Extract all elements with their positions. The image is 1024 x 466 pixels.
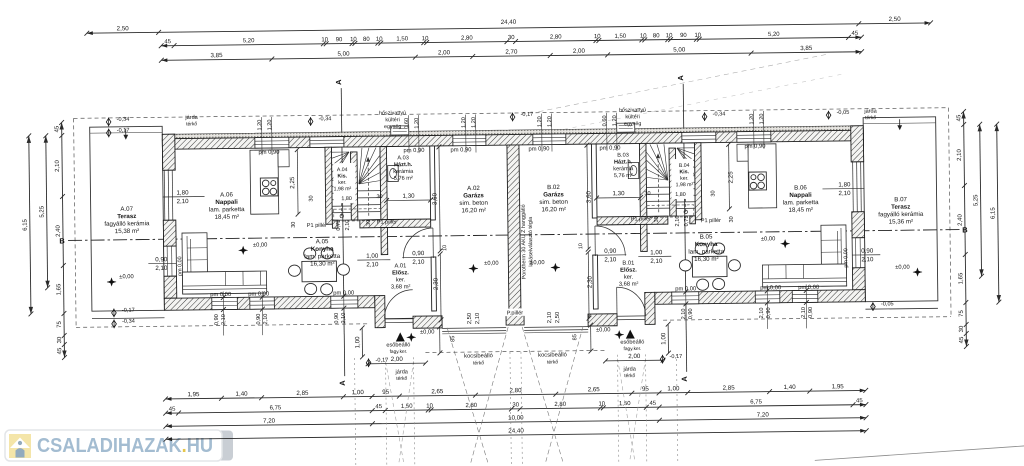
- yard dashed line center: [425, 350, 605, 352]
- svg-text:30: 30: [291, 222, 297, 228]
- svg-text:B.05: B.05: [700, 234, 713, 241]
- svg-text:térkő: térkő: [396, 376, 407, 382]
- elevation star ±0,00: [895, 265, 922, 277]
- svg-text:0,75: 0,75: [336, 220, 342, 231]
- svg-text:A.07: A.07: [120, 206, 133, 213]
- svg-text:2,25: 2,25: [727, 171, 734, 184]
- window in front wall: [250, 297, 275, 309]
- svg-text:esőbeálló: esőbeálló: [386, 342, 410, 348]
- svg-text:járda: járda: [622, 367, 636, 373]
- svg-text:5,76 m²: 5,76 m²: [614, 173, 633, 179]
- svg-text:30: 30: [366, 220, 372, 226]
- svg-text:1,00: 1,00: [354, 336, 361, 349]
- svg-text:P1 pillér: P1 pillér: [307, 223, 327, 229]
- svg-text:95: 95: [382, 389, 390, 396]
- svg-text:2,65: 2,65: [588, 386, 601, 393]
- svg-text:75: 75: [959, 310, 965, 317]
- svg-text:térkő: térkő: [186, 121, 197, 127]
- label hoszivattyu kulteri egyseg: [379, 110, 406, 130]
- dimension 2,30 garage A: [432, 245, 449, 323]
- wall: L side wall lower block: [164, 276, 177, 298]
- svg-text:Kis.: Kis.: [679, 169, 689, 175]
- dimension porch 2,00 R: [603, 353, 665, 364]
- svg-text:fagyálló kerámia: fagyálló kerámia: [104, 220, 150, 228]
- svg-text:75: 75: [57, 321, 63, 328]
- svg-text:1,00: 1,00: [660, 332, 667, 345]
- watermark house icon: [9, 434, 31, 458]
- svg-text:2,10: 2,10: [263, 314, 269, 325]
- svg-text:Elősz.: Elősz.: [620, 267, 637, 273]
- svg-text:2,25: 2,25: [289, 176, 296, 189]
- svg-text:-0,17: -0,17: [669, 354, 682, 360]
- dimension 0,90/2,10 left hall door: [402, 250, 436, 266]
- svg-text:10: 10: [321, 37, 328, 43]
- svg-text:30: 30: [654, 216, 660, 222]
- svg-text:2,10: 2,10: [650, 258, 663, 265]
- svg-text:térkő: térkő: [624, 373, 635, 379]
- svg-text:sim. beton: sim. beton: [459, 200, 488, 207]
- svg-text:Konyha: Konyha: [311, 246, 334, 253]
- wall: L stair west wall: [325, 147, 332, 224]
- svg-text:1,20: 1,20: [749, 114, 755, 125]
- svg-text:B.01: B.01: [622, 261, 634, 267]
- svg-text:45: 45: [57, 347, 63, 354]
- window in top wall: [682, 132, 716, 143]
- window in top wall: [453, 135, 486, 146]
- svg-text:5,20: 5,20: [768, 32, 780, 38]
- svg-text:Porotherm 30 AKU Z hanggátló: Porotherm 30 AKU Z hanggátló: [521, 204, 528, 279]
- svg-text:30: 30: [644, 191, 650, 197]
- svg-text:-0,34: -0,34: [319, 116, 332, 122]
- svg-text:0,90: 0,90: [412, 250, 425, 257]
- svg-text:10: 10: [376, 37, 383, 43]
- svg-text:fagy.ker.: fagy.ker.: [390, 349, 408, 355]
- dimension 1,80/2,10 right terrace door: [822, 181, 864, 197]
- dining chairs R: [679, 243, 741, 291]
- room label B.03 Házt.h.: [613, 153, 634, 180]
- svg-text:2,10: 2,10: [475, 313, 481, 324]
- dimension porch side 1,00 L: [354, 325, 365, 359]
- room label A.03 Házt.h.: [393, 155, 414, 182]
- dimension right column inner: [956, 109, 969, 349]
- svg-text:sim. beton: sim. beton: [539, 199, 568, 206]
- svg-text:2,10: 2,10: [547, 312, 553, 323]
- entrance triangle marker L: [396, 332, 405, 341]
- svg-text:5,20: 5,20: [243, 38, 255, 44]
- level diamond marker: [702, 111, 725, 121]
- svg-text:1,30: 1,30: [612, 190, 625, 197]
- svg-text:lam. parketta: lam. parketta: [304, 253, 340, 260]
- window in side wall: [852, 238, 865, 268]
- svg-text:pm 0,00: pm 0,00: [248, 291, 269, 297]
- svg-text:fagyálló kerámia: fagyálló kerámia: [878, 211, 924, 219]
- svg-text:B.03: B.03: [617, 153, 629, 159]
- svg-text:0,90: 0,90: [214, 314, 220, 325]
- svg-text:1,40: 1,40: [784, 384, 797, 391]
- dimension 1,00/2,10 left kitchen door: [357, 253, 390, 269]
- room label B.04 Kis.: [675, 163, 693, 188]
- elevation star ±0,00: [238, 243, 267, 255]
- svg-text:1,80: 1,80: [176, 189, 189, 196]
- wall: R garage west wall upper: [591, 144, 597, 218]
- svg-text:térkő: térkő: [865, 115, 876, 121]
- svg-text:kerámia: kerámia: [613, 166, 634, 172]
- terrace drain arrow: [123, 129, 128, 140]
- svg-text:1,95: 1,95: [832, 383, 845, 390]
- level diamond marker: [106, 117, 129, 127]
- svg-text:térkő: térkő: [547, 359, 558, 365]
- door arc right hall-garage door: [595, 226, 625, 256]
- dimension 2,25 left kitchen: [289, 147, 301, 216]
- svg-text:2,10: 2,10: [221, 314, 227, 325]
- svg-text:30: 30: [512, 402, 519, 408]
- svg-text:30: 30: [959, 325, 965, 332]
- svg-text:30: 30: [376, 194, 382, 200]
- wall: R front door side stub: [588, 314, 617, 326]
- svg-text:0,90: 0,90: [256, 314, 262, 325]
- dimension 2,30 garage B: [578, 243, 594, 321]
- svg-text:15,36 m²: 15,36 m²: [889, 218, 914, 225]
- dimension 1,80/2,10 left terrace door: [162, 189, 204, 205]
- svg-text:30: 30: [57, 336, 63, 343]
- wall: R corridor wall segment: [690, 216, 696, 224]
- svg-text:pm 0,00: pm 0,00: [760, 285, 781, 291]
- svg-text:B.06: B.06: [794, 184, 807, 191]
- svg-text:járda: járda: [863, 109, 877, 115]
- svg-text:±0,00: ±0,00: [895, 265, 910, 271]
- wall: central front pillar P.pillér: [506, 310, 524, 325]
- svg-text:2,10: 2,10: [55, 160, 61, 172]
- svg-text:Házt.h.: Házt.h.: [394, 162, 413, 168]
- svg-text:5,25: 5,25: [39, 205, 45, 217]
- svg-text:2,70: 2,70: [505, 49, 518, 56]
- faint scan diagonal artifacts: [538, 52, 1024, 464]
- svg-text:B.02: B.02: [547, 184, 560, 191]
- dimension 0,90/2,10 left side window: [148, 256, 176, 272]
- svg-text:30: 30: [710, 190, 716, 196]
- wall: top exterior wall band: [162, 130, 863, 149]
- svg-text:B: B: [59, 236, 65, 245]
- svg-text:1,80: 1,80: [675, 192, 686, 198]
- label hoszivattyu kulteri egyseg: [619, 107, 646, 127]
- wall: L entrance bay side wall: [375, 296, 385, 328]
- svg-text:2,50: 2,50: [555, 312, 561, 323]
- svg-text:0,90: 0,90: [688, 308, 694, 319]
- svg-text:±0,00: ±0,00: [420, 329, 435, 335]
- svg-text:pm 0,00: pm 0,00: [177, 256, 183, 276]
- svg-text:Házt.h.: Házt.h.: [614, 159, 633, 165]
- room label B.05 Konyha: [688, 233, 725, 263]
- front window axis dimension lines: [221, 284, 809, 335]
- room label A.07 Terasz: [104, 205, 150, 235]
- svg-text:10: 10: [598, 401, 605, 407]
- svg-text:10: 10: [426, 403, 433, 409]
- terrace A.07 outline: [90, 126, 165, 318]
- svg-text:0,60: 0,60: [602, 115, 608, 126]
- dimension bottom row A segments: [163, 383, 868, 401]
- svg-text:16,30 m²: 16,30 m²: [310, 260, 335, 267]
- elevation star ±0,00: [596, 327, 624, 339]
- svg-text:3,68 m²: 3,68 m²: [391, 284, 411, 290]
- svg-text:7,20: 7,20: [263, 418, 276, 425]
- svg-text:kocsibeálló: kocsibeálló: [464, 353, 493, 359]
- svg-text:3,85: 3,85: [210, 52, 223, 59]
- driveway kocsibeallo lines L: [447, 327, 510, 463]
- svg-text:2,50: 2,50: [467, 313, 473, 324]
- svg-text:±0,00: ±0,00: [761, 236, 776, 242]
- elevation star ±0,00: [407, 329, 435, 341]
- driveway kocsibeallo lines R: [522, 326, 585, 462]
- dining table L: [302, 261, 337, 282]
- stove L: [260, 178, 278, 196]
- svg-text:Elősz.: Elősz.: [392, 270, 409, 276]
- svg-text:A: A: [680, 376, 689, 382]
- wall: L kitchen-hall wall: [381, 228, 388, 255]
- svg-text:2,10: 2,10: [675, 216, 681, 227]
- dimension 2,25 right kitchen: [726, 142, 735, 211]
- B.04 label backing: [671, 159, 693, 199]
- kitchen counter L: [250, 150, 290, 214]
- svg-text:16,20 m²: 16,20 m²: [461, 207, 486, 214]
- corner sofa R: [762, 225, 847, 287]
- jarda dotted lines L: [386, 357, 415, 466]
- level diamond marker: [366, 358, 388, 368]
- garage door threshold: [524, 327, 588, 333]
- svg-text:5,00: 5,00: [673, 46, 686, 53]
- svg-text:85: 85: [572, 334, 578, 340]
- svg-text:1,20: 1,20: [414, 118, 420, 129]
- svg-text:10: 10: [694, 33, 701, 39]
- jarda dotted lines R: [617, 354, 646, 464]
- svg-text:7,20: 7,20: [757, 411, 770, 418]
- dimension top row rooms: [159, 44, 864, 62]
- window in front wall: [212, 297, 238, 309]
- svg-text:A.01: A.01: [394, 263, 406, 269]
- svg-text:1,80: 1,80: [341, 196, 352, 202]
- svg-text:hőszivattyú: hőszivattyú: [379, 110, 406, 116]
- svg-text:ker.: ker.: [396, 277, 406, 283]
- svg-text:85: 85: [450, 336, 456, 342]
- window in top wall: [533, 134, 566, 145]
- wall: L side wall upper corner block: [162, 134, 175, 170]
- wall: L stair spine wall: [350, 152, 357, 220]
- section line A-A left: [334, 79, 347, 386]
- svg-text:esőbeálló: esőbeálló: [620, 339, 644, 345]
- wall: R corridor wall long segment: [597, 216, 668, 225]
- dining chairs L: [288, 247, 350, 295]
- level diamond marker: [871, 301, 894, 311]
- svg-text:P1 pillér: P1 pillér: [631, 216, 651, 222]
- wall: R living front wall: [655, 290, 866, 305]
- dimension bottom row C 7,20+10,00+7,20: [163, 410, 868, 428]
- svg-text:6,15: 6,15: [23, 218, 29, 230]
- svg-text:A.05: A.05: [316, 238, 329, 245]
- stove R: [749, 172, 767, 190]
- svg-text:2,10: 2,10: [957, 149, 963, 161]
- svg-text:2,10: 2,10: [861, 256, 874, 263]
- svg-text:ker.: ker.: [338, 180, 346, 186]
- svg-text:-0,34: -0,34: [122, 319, 135, 325]
- terrace B.07 outline: [863, 117, 938, 309]
- svg-text:pm 0,00: pm 0,00: [675, 286, 696, 292]
- svg-text:2,40: 2,40: [958, 214, 964, 226]
- svg-text:2,10: 2,10: [177, 198, 190, 205]
- dimension left column inner: [54, 120, 67, 360]
- front door threshold: [617, 316, 645, 320]
- svg-text:fagy.ker.: fagy.ker.: [624, 346, 642, 352]
- wall: L garage west wall upper: [430, 146, 436, 220]
- wall: R stair spine wall: [669, 148, 676, 216]
- wall: R stair west wall: [694, 143, 701, 220]
- wall: L front door side stub: [413, 316, 442, 328]
- svg-text:18,45 m²: 18,45 m²: [215, 214, 240, 221]
- svg-text:45: 45: [649, 401, 656, 407]
- dimension 85 right porch: [572, 323, 593, 354]
- svg-text:1,00: 1,00: [650, 249, 663, 256]
- stairs L: [331, 147, 380, 222]
- svg-text:B: B: [962, 225, 968, 234]
- svg-text:0,90: 0,90: [155, 256, 168, 263]
- svg-text:lakáselválasztó tégla: lakáselválasztó tégla: [528, 217, 535, 267]
- svg-text:Garázs: Garázs: [543, 191, 564, 198]
- window in top wall: [310, 137, 344, 148]
- svg-text:15,38 m²: 15,38 m²: [115, 228, 140, 235]
- svg-text:-0,05: -0,05: [837, 110, 850, 116]
- svg-text:3,60: 3,60: [585, 190, 592, 203]
- svg-text:3,60: 3,60: [431, 192, 438, 205]
- kitchen counter R: [737, 144, 777, 208]
- garage door threshold: [442, 328, 506, 334]
- svg-text:B.07: B.07: [894, 196, 907, 203]
- svg-text:lam. parketta: lam. parketta: [783, 199, 819, 206]
- svg-text:2,40: 2,40: [56, 225, 62, 237]
- door arc front door right: [617, 287, 646, 316]
- svg-text:2,50: 2,50: [889, 16, 902, 23]
- svg-text:5,76 m²: 5,76 m²: [394, 176, 413, 182]
- level diamond marker: [112, 308, 135, 318]
- wall: R stair east wall: [639, 143, 646, 220]
- svg-text:2,50: 2,50: [117, 25, 130, 32]
- dimension 3,60 garage B: [585, 143, 594, 252]
- corner sofa L: [182, 232, 267, 294]
- svg-text:1,80: 1,80: [838, 181, 851, 188]
- svg-text:2,10: 2,10: [604, 256, 617, 263]
- svg-text:1,50: 1,50: [614, 34, 626, 40]
- svg-text:járda: járda: [394, 369, 408, 375]
- svg-text:Nappali: Nappali: [215, 199, 238, 206]
- svg-text:45: 45: [852, 31, 859, 37]
- heat pump unit R: [617, 123, 635, 132]
- svg-text:térkő: térkő: [473, 360, 484, 366]
- svg-text:pm 0,00: pm 0,00: [210, 292, 231, 298]
- svg-text:90: 90: [680, 33, 687, 39]
- room label B.07 Terasz: [878, 196, 924, 226]
- svg-text:6,15: 6,15: [991, 207, 997, 219]
- dimension right column 5,25: [972, 122, 984, 279]
- svg-text:1,65: 1,65: [56, 283, 62, 295]
- svg-text:-0,17: -0,17: [521, 112, 534, 118]
- heat pump unit L: [391, 126, 409, 135]
- svg-text:1,00: 1,00: [667, 385, 680, 392]
- room label B.06 Nappali: [783, 184, 820, 214]
- terrace sliding door (glass) in side wall: [851, 162, 864, 212]
- svg-text:ker.: ker.: [624, 275, 634, 281]
- terrace sliding door (glass) in side wall: [163, 170, 176, 220]
- svg-text:1,50: 1,50: [396, 36, 408, 42]
- svg-text:CSALADIHAZAK.HU: CSALADIHAZAK.HU: [37, 434, 213, 457]
- svg-text:A: A: [334, 79, 343, 85]
- window in front wall: [755, 291, 780, 303]
- room label B.01 Elősz.: [619, 260, 639, 287]
- svg-text:2,80: 2,80: [461, 36, 473, 42]
- svg-text:±0,00: ±0,00: [484, 261, 499, 267]
- svg-text:-0,34: -0,34: [713, 111, 726, 117]
- svg-text:-0,34: -0,34: [117, 117, 130, 123]
- svg-text:0,90: 0,90: [766, 307, 772, 318]
- svg-text:1,20: 1,20: [547, 116, 553, 127]
- svg-text:16,20 m²: 16,20 m²: [541, 206, 566, 213]
- pillar projection dashed verticals: [510, 352, 522, 466]
- stairs R: [646, 143, 695, 218]
- dimension 1,30 right: [594, 190, 651, 201]
- svg-text:2,00: 2,00: [391, 356, 404, 363]
- wall: L side wall mid block: [163, 220, 176, 246]
- svg-text:P.pillér: P.pillér: [507, 310, 524, 316]
- elevation star ±0,00: [530, 260, 560, 272]
- wall: R kitchen-hall wall: [640, 224, 647, 251]
- svg-text:2,00: 2,00: [573, 48, 586, 55]
- wall: R entrance bay side wall: [645, 292, 655, 324]
- svg-text:pm 0,90: pm 0,90: [258, 150, 279, 156]
- window in front wall: [672, 292, 699, 304]
- svg-text:hőszivattyú: hőszivattyú: [619, 107, 646, 113]
- svg-text:2,10: 2,10: [155, 265, 168, 272]
- label Porotherm party wall rotated: [521, 204, 535, 279]
- level diamond marker: [826, 110, 849, 120]
- svg-text:6,75: 6,75: [750, 399, 762, 405]
- svg-text:2,30: 2,30: [587, 275, 594, 288]
- label P.pillér with backing: [499, 308, 531, 316]
- svg-text:lam. parketta: lam. parketta: [688, 248, 724, 255]
- svg-text:95: 95: [642, 386, 650, 393]
- svg-text:pm 0,90: pm 0,90: [403, 148, 424, 154]
- svg-text:2,10: 2,10: [345, 220, 351, 231]
- svg-text:pm 0,00: pm 0,00: [333, 290, 354, 296]
- dimension 3,60 garage A: [431, 144, 443, 253]
- dimension 1,00/2,10 right kitchen door: [638, 249, 671, 265]
- room label B.02 Garázs: [539, 184, 568, 214]
- wall: top insulation strip: [162, 126, 863, 139]
- svg-text:lam. parketta: lam. parketta: [209, 206, 245, 213]
- svg-text:30: 30: [508, 35, 515, 41]
- svg-text:Nappali: Nappali: [789, 192, 812, 199]
- svg-text:1,00: 1,00: [352, 389, 365, 396]
- svg-text:-0,17: -0,17: [122, 308, 135, 314]
- svg-text:Terasz: Terasz: [891, 204, 910, 211]
- svg-text:45: 45: [54, 125, 60, 132]
- svg-text:1,98 m²: 1,98 m²: [676, 182, 694, 188]
- level diamond marker: [660, 354, 682, 364]
- svg-text:2,85: 2,85: [723, 385, 736, 392]
- svg-text:5,00: 5,00: [337, 51, 350, 58]
- dimension right column 6,15: [989, 122, 1001, 305]
- dimension porch side 1,00 R: [660, 322, 671, 356]
- room label A.02 Garázs: [459, 185, 488, 215]
- svg-text:2,30: 2,30: [433, 277, 440, 290]
- svg-text:pm 0,90: pm 0,90: [450, 147, 471, 153]
- svg-text:0,60: 0,60: [404, 118, 410, 129]
- svg-text:1,30: 1,30: [402, 193, 415, 200]
